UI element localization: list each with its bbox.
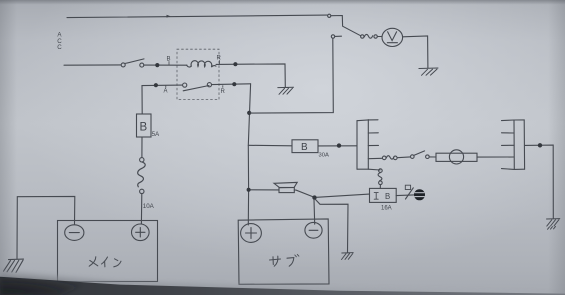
fuse F1 (main battery): [138, 158, 146, 194]
wire junction to sub ground: [316, 200, 348, 253]
fuse holder B (accessory line): [292, 140, 318, 153]
svg-text:R: R: [221, 89, 226, 95]
fuse F3 (to IB): [378, 169, 382, 189]
terminal plus (main): [132, 224, 150, 241]
connector J1 (left block): [357, 120, 380, 170]
wire junction to fuse holder IB: [317, 194, 370, 197]
label メイン (hand-drawn strokes): [89, 257, 121, 267]
wire voltmeter selector feed: [250, 39, 334, 113]
wire fuse holder to connector J1: [318, 145, 357, 147]
wire lamp to connector J2: [477, 156, 514, 158]
junction dot: [247, 111, 251, 115]
relay switch contacts: [183, 83, 212, 91]
wire fuse holder to fuse: [141, 137, 143, 158]
junction dot: [154, 83, 158, 87]
wire main minus to ground: [17, 196, 75, 258]
svg-text:C: C: [57, 44, 62, 51]
junction dot: [232, 82, 236, 86]
wire speaker to junction: [294, 190, 314, 197]
lamp M1 (bulb in holder): [436, 150, 477, 164]
small plug mark: [405, 185, 410, 189]
pin label R: [221, 86, 226, 95]
pin label R: [217, 56, 222, 64]
wire switch to relay coil: [144, 64, 187, 66]
wire J2 to ground: [525, 145, 554, 218]
junction dot: [312, 195, 316, 199]
wire top ACC feed line: [67, 15, 327, 18]
svg-text:R: R: [217, 56, 222, 62]
arrowhead on top line: [167, 15, 171, 18]
ground (relay coil): [278, 87, 294, 94]
wire fuse to switch SW2: [397, 156, 410, 159]
switch SW1 (ACC key switch): [121, 59, 144, 67]
terminal minus (main): [65, 225, 84, 241]
svg-text:10A: 10A: [143, 203, 155, 210]
junction dot: [247, 188, 251, 192]
wire relay contact right leg: [212, 83, 251, 86]
terminal minus (sub): [305, 222, 322, 238]
svg-text:B: B: [301, 142, 308, 153]
wire bus to fuse holder: [248, 144, 292, 147]
polarity slash mark: [406, 188, 414, 199]
fuse holder IB: [370, 188, 397, 202]
wire switch to lamp M1: [429, 156, 436, 158]
ground (sub battery): [342, 253, 354, 260]
wire junction to sub minus: [313, 200, 316, 225]
fuse F4 (voltmeter): [364, 34, 382, 38]
fuse holder B (main line): [137, 114, 152, 137]
switch SW2: [411, 151, 430, 159]
pin label A: [164, 86, 168, 95]
junction dot: [337, 143, 341, 147]
relay K1 dashed enclosure: [177, 49, 219, 99]
ground (voltmeter): [419, 68, 438, 75]
junction dot: [538, 143, 542, 147]
ground (right): [547, 219, 560, 230]
wire ACC lower line: [64, 64, 121, 66]
pin wire to fuse F2: [368, 157, 382, 159]
wire coil to ground branch: [216, 64, 285, 88]
wire main distribution bus: [248, 84, 250, 225]
wire fuse to main battery plus: [140, 194, 142, 224]
svg-text:A: A: [164, 89, 168, 95]
meter V (voltmeter): [382, 28, 403, 46]
lamp DL1 (dark bulb): [414, 189, 425, 200]
svg-text:5A: 5A: [152, 132, 159, 138]
junction dot: [155, 63, 159, 67]
switch SW3 (voltmeter selector): [328, 14, 364, 38]
label サブ (hand-drawn strokes): [270, 254, 299, 266]
fuse F2: [382, 156, 397, 160]
battery BT1 (main) box: [58, 221, 158, 282]
connector J2 (right block): [502, 120, 525, 169]
wire bus to speaker: [249, 189, 279, 191]
junction dot: [233, 62, 237, 66]
svg-text:B: B: [167, 57, 171, 63]
svg-text:B: B: [385, 192, 390, 201]
battery BT2 (sub) box: [238, 219, 329, 284]
wire IB to lamp: [396, 194, 413, 197]
pin label B: [167, 57, 171, 65]
ground (main battery): [4, 259, 24, 272]
wire voltmeter to ground: [403, 36, 428, 68]
svg-text:B: B: [140, 122, 148, 134]
terminal plus (sub): [241, 224, 262, 243]
svg-text:16A: 16A: [381, 206, 392, 212]
inductor L (relay coil): [187, 61, 217, 67]
svg-text:30A: 30A: [319, 153, 329, 159]
node ACC label: [57, 32, 62, 51]
speaker SP1: [274, 182, 297, 192]
wire relay contact left leg: [142, 85, 183, 114]
